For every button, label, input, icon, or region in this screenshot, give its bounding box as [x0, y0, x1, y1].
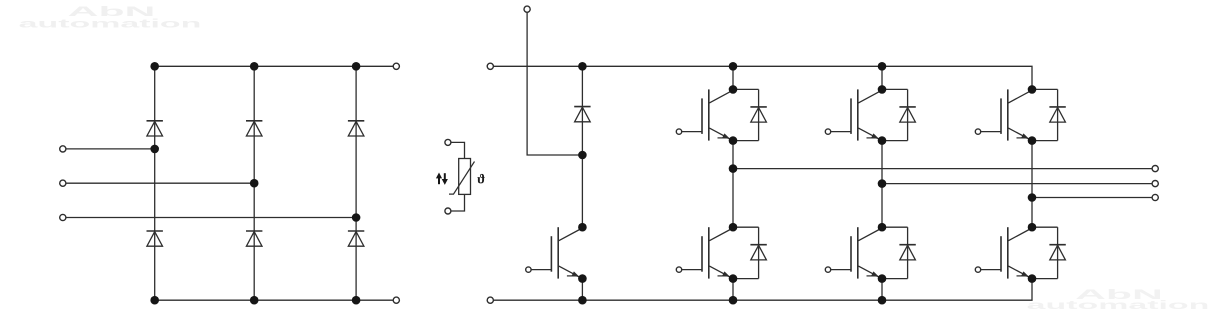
terminal inverter DC-	[487, 297, 493, 303]
junction collector bottom W	[1028, 223, 1037, 232]
wire rectifier leg 2	[253, 66, 255, 300]
junction rectifier top leg 2	[250, 62, 259, 71]
junction rectifier bottom leg 3	[352, 296, 361, 305]
junction collector bottom U	[729, 223, 738, 232]
igbt Q5 top W gate lead	[981, 131, 1001, 133]
igbt Q2 bottom U gate lead	[682, 269, 702, 271]
svg-text:automation: automation	[1027, 299, 1210, 312]
junction emitter bottom V	[878, 274, 887, 283]
terminal thermistor top	[445, 139, 451, 145]
junction DC+ brake leg	[578, 62, 587, 71]
wire inverter leg W middle	[1031, 141, 1033, 228]
junction DC- leg V	[878, 296, 887, 305]
wire brake resistor terminal drop	[527, 12, 582, 155]
wire brake leg upper	[581, 66, 583, 155]
junction AC input L1 on leg 1	[150, 145, 159, 154]
junction brake emitter	[578, 274, 587, 283]
junction collector top V	[878, 85, 887, 94]
igbt Q3 top V gate terminal	[825, 129, 830, 134]
terminal thermistor bottom	[445, 208, 451, 214]
wire inverter leg V upper	[881, 66, 883, 89]
diode D1	[147, 121, 163, 136]
terminal inverter DC+	[487, 63, 493, 69]
junction AC input L2 on leg 2	[250, 179, 259, 188]
diode D2	[147, 231, 163, 246]
junction collector top U	[729, 85, 738, 94]
junction rectifier bottom leg 2	[250, 296, 259, 305]
junction rectifier bottom leg 1	[150, 296, 159, 305]
junction output U	[729, 164, 738, 173]
junction collector top W	[1028, 85, 1037, 94]
igbt Q3 top V gate lead	[831, 131, 851, 133]
diode D9	[750, 245, 766, 260]
thermistor RT1 body	[459, 159, 471, 195]
thermistor bidirectional arrows	[436, 173, 448, 185]
wire output U	[733, 168, 1153, 170]
terminal output U	[1152, 166, 1158, 172]
junction DC- leg U	[729, 296, 738, 305]
wire brake leg lower	[581, 279, 583, 301]
diode D9 branch wires	[733, 227, 759, 278]
wire inverter leg U lower	[732, 279, 734, 301]
terminal output V	[1152, 181, 1158, 187]
terminal AC input L1	[60, 146, 66, 152]
junction brake collector	[578, 223, 587, 232]
diode D11 branch wires	[882, 227, 908, 278]
igbt Q6 bottom W gate terminal	[975, 267, 980, 272]
igbt Q6 bottom W gate lead	[981, 269, 1001, 271]
diode D6	[348, 231, 364, 246]
wire inverter leg U upper	[732, 66, 734, 89]
diode D13 branch wires	[1032, 227, 1058, 278]
diode D10	[899, 107, 915, 122]
igbt Q7 brake chopper gate terminal	[526, 267, 531, 272]
thermistor RT1 diagonal	[449, 162, 475, 195]
junction output V	[878, 179, 887, 188]
junction emitter top W	[1028, 136, 1037, 145]
wire rectifier DC- rail	[155, 299, 394, 301]
diode D13	[1049, 245, 1065, 260]
diode D3	[246, 121, 262, 136]
junction brake node	[578, 151, 587, 160]
igbt Q7 brake chopper gate lead	[531, 269, 551, 271]
igbt Q1 top U body	[702, 89, 733, 140]
svg-text:automation: automation	[19, 17, 202, 30]
wire inverter leg U middle	[732, 141, 734, 228]
wire thermistor top lead	[451, 142, 465, 158]
junction AC input L3 on leg 3	[352, 213, 361, 222]
wire inverter leg V middle	[881, 141, 883, 228]
junction DC- brake leg	[578, 296, 587, 305]
junction rectifier top leg 3	[352, 62, 361, 71]
wire thermistor bottom lead	[451, 194, 465, 211]
terminal rectifier DC-	[393, 297, 399, 303]
diode D8	[750, 107, 766, 122]
wire inverter DC+ rail	[494, 66, 1033, 89]
terminal AC input L3	[60, 214, 66, 220]
watermark AbN automation bottom-right	[1027, 286, 1210, 311]
igbt Q5 top W body	[1001, 89, 1032, 140]
wire brake leg middle	[581, 155, 583, 227]
wire output W	[1032, 197, 1153, 199]
terminal rectifier DC+	[393, 63, 399, 69]
junction rectifier top leg 1	[150, 62, 159, 71]
junction emitter bottom W	[1028, 274, 1037, 283]
diode D12 branch wires	[1032, 89, 1058, 140]
igbt Q5 top W gate terminal	[975, 129, 980, 134]
igbt Q1 top U gate lead	[682, 131, 702, 133]
junction emitter top V	[878, 136, 887, 145]
terminal AC input L2	[60, 180, 66, 186]
terminal brake resistor top	[524, 6, 530, 12]
igbt Q6 bottom W body	[1001, 227, 1032, 278]
wire AC input L1	[66, 148, 155, 150]
wire inverter DC- rail	[494, 279, 1033, 301]
igbt Q2 bottom U body	[702, 227, 733, 278]
diode D5	[348, 121, 364, 136]
wire output V	[882, 183, 1153, 185]
junction DC+ leg V	[878, 62, 887, 71]
label theta	[477, 174, 484, 184]
diode D7 brake freewheel	[574, 107, 590, 122]
diode D8 branch wires	[733, 89, 759, 140]
wire AC input L2	[66, 182, 255, 184]
igbt Q4 bottom V gate terminal	[825, 267, 830, 272]
junction DC+ leg U	[729, 62, 738, 71]
igbt Q7 brake chopper body	[551, 227, 582, 278]
watermark AbN automation top-left	[19, 3, 202, 30]
wire rectifier DC+ rail	[155, 65, 394, 67]
diode D12	[1049, 107, 1065, 122]
junction emitter bottom U	[729, 274, 738, 283]
wire rectifier leg 1	[154, 66, 156, 300]
junction emitter top U	[729, 136, 738, 145]
diode D10 branch wires	[882, 89, 908, 140]
igbt Q2 bottom U gate terminal	[676, 267, 681, 272]
junction output W	[1028, 193, 1037, 202]
wire rectifier leg 3	[355, 66, 357, 300]
igbt Q4 bottom V body	[851, 227, 882, 278]
terminal output W	[1152, 194, 1158, 200]
igbt Q1 top U gate terminal	[676, 129, 681, 134]
diode D4	[246, 231, 262, 246]
junction collector bottom V	[878, 223, 887, 232]
wire inverter leg V lower	[881, 279, 883, 301]
igbt Q3 top V body	[851, 89, 882, 140]
igbt Q4 bottom V gate lead	[831, 269, 851, 271]
diode D11	[899, 245, 915, 260]
wire AC input L3	[66, 217, 357, 219]
